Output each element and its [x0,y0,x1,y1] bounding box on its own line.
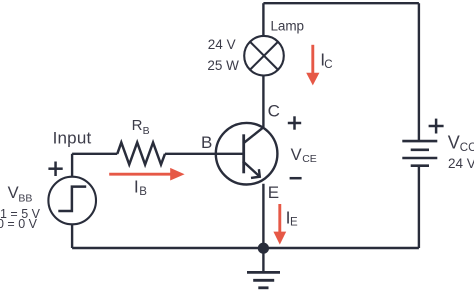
voltage source VBB (step input) [48,177,96,225]
wire emitter lead [262,184,264,248]
wire bottom rail [72,247,419,250]
ground [247,248,280,288]
plus sign VCC [429,119,444,134]
svg-text:B: B [143,125,150,137]
svg-text:C: C [268,102,280,121]
svg-text:B: B [201,133,212,152]
svg-text:I: I [134,177,139,197]
svg-text:Input: Input [53,128,92,147]
wire base lead right [165,153,244,155]
wire base lead left [72,153,117,155]
label VCC [448,132,474,154]
svg-text:V: V [291,146,302,164]
svg-text:CE: CE [302,153,317,165]
minus sign VCE [290,177,302,180]
wire lamp top lead [262,3,264,36]
junction dot (emitter / bottom rail) [258,243,269,254]
wire top rail [263,2,419,4]
svg-text:E: E [268,183,279,202]
wire source bottom lead [71,224,73,248]
wire right rail upper [418,3,420,141]
wire collector lead [262,76,264,128]
wire source top lead [71,154,73,177]
wire right rail lower [418,166,420,248]
battery VCC [402,141,437,166]
current arrow IB [109,168,184,181]
svg-text:24 V: 24 V [208,37,236,52]
svg-text:V: V [448,132,460,152]
svg-text:CC: CC [460,142,474,154]
svg-text:0 = 0 V: 0 = 0 V [0,217,38,231]
svg-text:Lamp: Lamp [271,19,304,34]
current arrow IE [273,204,286,245]
svg-text:B: B [139,186,147,198]
label RB [132,117,150,137]
svg-text:V: V [8,184,19,202]
svg-text:BB: BB [18,193,32,205]
plus sign VBB [48,162,62,177]
svg-text:R: R [132,117,143,134]
label VBB [8,184,33,205]
svg-text:25 W: 25 W [207,58,239,73]
current arrow IC [306,45,319,86]
lamp DS1 [244,36,284,76]
plus sign VCE [288,116,301,129]
svg-text:24 V: 24 V [448,156,474,171]
label IC [320,50,332,71]
svg-text:E: E [290,216,298,228]
resistor RB [117,143,165,165]
svg-text:C: C [324,59,332,71]
label IB [134,177,147,198]
transistor Q1 (NPN) [216,123,278,185]
label IE [286,207,298,228]
label VCE [291,146,317,165]
